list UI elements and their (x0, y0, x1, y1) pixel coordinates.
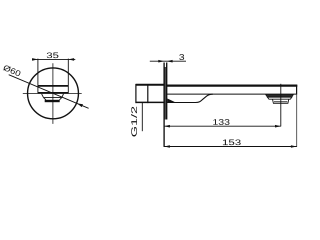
aerator housing step 1 (front) (42, 94, 64, 98)
leader arrowhead on circle (77, 103, 83, 107)
spout tip edge (296, 85, 298, 95)
arrow right (dim 3) (167, 60, 173, 63)
spout top edge (side) (167, 84, 297, 86)
root fillet wedge (167, 99, 176, 103)
aerator upper fill (266, 95, 293, 98)
spout underside line (side) (167, 93, 297, 95)
arrow left (dim 133) (164, 125, 170, 128)
dim text 133 (213, 119, 229, 125)
G1/2 leader line (141, 103, 143, 132)
spout body front: bottom edge (38, 92, 68, 94)
extension line right (dim 35) (67, 59, 69, 94)
arrow left (dim 3) (158, 60, 164, 63)
aerator lower inner line (274, 101, 287, 103)
dim text 35 (47, 52, 59, 58)
aerator dark band (front) (45, 100, 60, 102)
arrow right (dim 153) (291, 145, 297, 148)
dim text 153 (223, 139, 241, 145)
aerator inner line (267, 96, 292, 98)
arrow right (dim 133) (275, 125, 281, 128)
centerline vertical (front view) (52, 63, 54, 124)
wall plate body (164, 67, 167, 120)
wall plate rear face line (163, 63, 165, 147)
extension line right (dim 153) (296, 95, 298, 147)
aerator centerline / extension 133 (280, 84, 282, 127)
label Ø60 (3, 64, 22, 76)
spout root bottom outline with curve (167, 94, 213, 102)
dimension line 35 (32, 58, 75, 60)
inlet pipe bottom edge (136, 101, 165, 103)
inlet pipe thread line (147, 84, 149, 103)
aerator (side) lower box (273, 99, 289, 103)
arrow left (dim 153) (164, 145, 170, 148)
wall plate front face line (166, 63, 168, 120)
spout body front: top edge (38, 85, 68, 87)
centerline horizontal (front view) (23, 92, 82, 94)
side view: inlet pipe G1/2 top edge (136, 84, 165, 86)
leader line Ø60 (9, 75, 89, 109)
arrow left (dim 35) (32, 58, 38, 61)
aerator (side) upper trapezoid (266, 94, 294, 99)
arrow right (dim 35) (68, 58, 74, 61)
inlet pipe left edge (135, 84, 137, 103)
extension line left (dim 35) (37, 59, 39, 94)
dimension line 133 (164, 125, 281, 127)
label G1/2 (131, 107, 137, 137)
dimension line 3 (150, 60, 186, 62)
dim text 3 (179, 54, 184, 60)
aerator housing step 2 (front) (44, 98, 62, 100)
front view: escutcheon circle Ø60 (28, 68, 79, 119)
dimension line 153 (164, 146, 297, 148)
